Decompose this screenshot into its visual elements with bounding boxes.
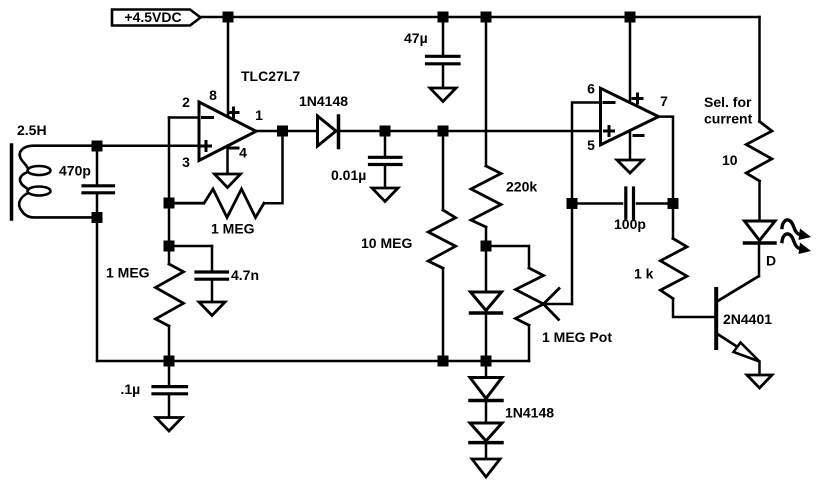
wire left column down to bottom rail xyxy=(96,217,99,361)
inductor L1 2.5H winding xyxy=(19,146,97,218)
svg-text:+4.5VDC: +4.5VDC xyxy=(124,9,181,25)
node top rail junction D xyxy=(625,12,636,23)
wire pot feed xyxy=(486,246,529,268)
svg-text:0.01µ: 0.01µ xyxy=(331,167,366,183)
capacitor C 47u xyxy=(427,56,460,88)
LED light arrow 2 xyxy=(782,234,811,254)
ground under .1u xyxy=(156,418,182,432)
wire 10 MEG top lead xyxy=(442,131,445,210)
ground under op-amp U2 xyxy=(617,131,643,173)
op-amp U2 xyxy=(601,88,659,145)
svg-text:1: 1 xyxy=(255,107,263,123)
node 10 MEG top junction xyxy=(438,126,449,137)
resistor R 10 MEG xyxy=(428,210,455,268)
node feedback junction xyxy=(164,198,175,209)
svg-text:2: 2 xyxy=(182,94,190,110)
svg-text:6: 6 xyxy=(587,81,595,97)
diode D4 1N4148 string bottom xyxy=(470,402,502,459)
transistor Q1 2N4401 xyxy=(716,276,759,375)
ground under op-amp U1 xyxy=(215,146,241,188)
svg-text:7: 7 xyxy=(660,93,668,109)
ground under 0.01u xyxy=(372,188,398,202)
node bottom rail junction right xyxy=(481,356,492,367)
wire 220k feed from rail xyxy=(485,17,488,166)
wire 1 MEG bottom to rail xyxy=(168,326,171,361)
svg-text:8: 8 xyxy=(209,87,217,103)
wire 47u cap drop xyxy=(442,17,445,55)
svg-text:10 MEG: 10 MEG xyxy=(361,235,412,251)
wire pin2 node down xyxy=(168,203,171,264)
node 220k bottom junction xyxy=(481,241,492,252)
wire rail right end drop to R 10 xyxy=(758,17,761,122)
svg-text:TLC27L7: TLC27L7 xyxy=(241,68,300,84)
svg-text:5: 5 xyxy=(587,137,595,153)
inductor L1 2.5H core bar xyxy=(10,145,14,219)
resistor R 1k xyxy=(660,204,716,318)
diode D2 clamp xyxy=(471,292,502,361)
node top rail junction B xyxy=(438,12,449,23)
node 0.01u junction xyxy=(380,126,391,137)
svg-text:100p: 100p xyxy=(614,216,646,232)
wire op-amp U1 pin8 power drop xyxy=(227,17,230,115)
svg-text:3: 3 xyxy=(182,154,190,170)
resistor R 10 select xyxy=(746,122,772,182)
svg-text:1 MEG Pot: 1 MEG Pot xyxy=(542,329,612,345)
wire op-amp U2 power drop xyxy=(629,17,632,100)
svg-text:1N4148: 1N4148 xyxy=(299,93,348,109)
svg-text:4: 4 xyxy=(239,145,247,161)
wire op-amp U2 output xyxy=(659,117,673,204)
svg-text:D: D xyxy=(766,253,776,269)
diode D1 1N4148 xyxy=(318,116,339,148)
node 100p left junction xyxy=(567,198,578,209)
svg-text:.1µ: .1µ xyxy=(121,381,141,397)
node 4.7n tap junction xyxy=(164,241,175,252)
svg-text:2N4401: 2N4401 xyxy=(723,311,772,327)
node top rail junction A xyxy=(223,12,234,23)
svg-text:47µ: 47µ xyxy=(404,30,428,46)
node junction at tank bottom xyxy=(92,212,103,223)
node bottom rail junction left xyxy=(164,356,175,367)
resistor R 220k xyxy=(471,166,501,227)
wire pin2 vertical to feedback node xyxy=(168,118,171,204)
wire bottom rail xyxy=(97,360,529,363)
potentiometer 1 MEG Pot xyxy=(516,268,573,361)
resistor R 1 MEG vertical xyxy=(156,264,184,326)
svg-text:1 k: 1 k xyxy=(634,266,654,282)
capacitor C .1u xyxy=(153,361,187,418)
node junction at tank top xyxy=(92,141,103,152)
svg-text:470p: 470p xyxy=(59,163,91,179)
svg-text:2.5H: 2.5H xyxy=(17,122,47,138)
LED D xyxy=(745,181,776,276)
wire pin6 feed xyxy=(572,103,601,305)
svg-text:1 MEG: 1 MEG xyxy=(211,221,255,237)
capacitor C 4.7n xyxy=(169,246,228,302)
node output junction xyxy=(277,126,288,137)
wire top rail xyxy=(201,16,760,19)
wire 220k bottom lead xyxy=(485,227,488,292)
wire op-amp U1 output xyxy=(256,130,601,133)
node bottom rail junction mid xyxy=(438,356,449,367)
diode D3 1N4148 string top xyxy=(470,361,502,401)
wire inverting input pin2 xyxy=(169,116,199,119)
capacitor C 100p xyxy=(572,188,673,218)
svg-text:1 MEG: 1 MEG xyxy=(106,265,150,281)
ground under emitter xyxy=(747,375,772,388)
resistor R feedback 1 MEG xyxy=(169,189,264,218)
svg-text:220k: 220k xyxy=(506,179,537,195)
ground under diode string xyxy=(472,459,500,477)
power flag +4.5VDC xyxy=(112,9,201,26)
svg-text:Sel. for: Sel. for xyxy=(704,94,752,110)
wire feedback right leg xyxy=(264,131,283,203)
ground under 4.7n xyxy=(199,302,225,316)
svg-text:1N4148: 1N4148 xyxy=(505,405,554,421)
node 100p right junction xyxy=(668,198,679,209)
wire non-inverting input pin3 xyxy=(97,144,199,147)
svg-text:10: 10 xyxy=(722,152,738,168)
LED light arrow 1 xyxy=(782,220,811,240)
ground under 47u xyxy=(430,88,456,102)
svg-text:4.7n: 4.7n xyxy=(231,267,259,283)
svg-text:current: current xyxy=(704,111,753,127)
node top rail junction C xyxy=(481,12,492,23)
op-amp U1 TLC27L7 xyxy=(199,102,256,161)
capacitor C1 470p xyxy=(83,146,114,218)
capacitor C 0.01u xyxy=(370,131,402,188)
wire 10 MEG bottom lead xyxy=(442,268,445,361)
